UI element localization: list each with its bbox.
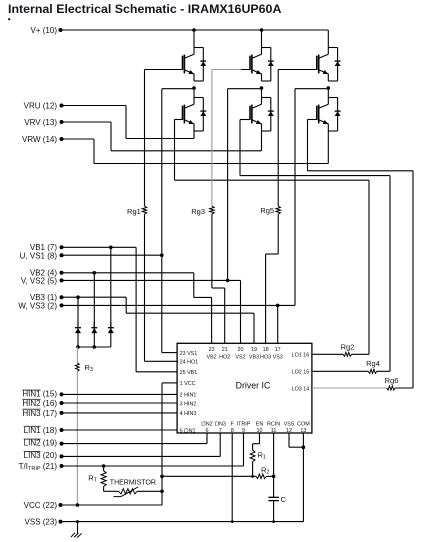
svg-text:THERMISTOR: THERMISTOR [110, 479, 156, 486]
svg-text:2 HIN1: 2 HIN1 [180, 393, 197, 399]
svg-text:HIN3 (17): HIN3 (17) [22, 409, 57, 418]
svg-text:25 VB1: 25 VB1 [180, 370, 198, 376]
svg-text:ITRIP: ITRIP [237, 422, 251, 428]
svg-text:20: 20 [238, 347, 244, 353]
svg-text:19: 19 [251, 347, 257, 353]
svg-text:Rg3: Rg3 [191, 207, 205, 216]
svg-text:7: 7 [219, 428, 222, 434]
svg-text:COM: COM [297, 422, 310, 428]
svg-text:VB2: VB2 [206, 354, 216, 360]
svg-text:V, VS2 (5): V, VS2 (5) [21, 277, 58, 286]
svg-text:EN: EN [256, 422, 264, 428]
svg-text:6: 6 [206, 428, 209, 434]
svg-text:11: 11 [271, 428, 277, 434]
svg-text:LIN2: LIN2 [201, 422, 212, 428]
svg-text:24 HO1: 24 HO1 [180, 360, 199, 366]
svg-text:RCIN: RCIN [267, 422, 280, 428]
svg-text:8: 8 [231, 428, 234, 434]
svg-text:C: C [281, 495, 287, 504]
svg-text:LIN1 (18): LIN1 (18) [24, 426, 58, 435]
svg-text:1 VCC: 1 VCC [180, 381, 196, 387]
svg-text:Rg6: Rg6 [385, 376, 399, 385]
svg-text:VSS: VSS [284, 422, 295, 428]
svg-text:Driver IC: Driver IC [236, 380, 271, 390]
svg-text:HO3: HO3 [260, 354, 271, 360]
svg-text:VB3: VB3 [249, 354, 259, 360]
svg-text:10: 10 [257, 428, 263, 434]
svg-text:Rg2: Rg2 [341, 342, 355, 351]
svg-text:22: 22 [209, 347, 215, 353]
svg-text:HIN2 (16): HIN2 (16) [22, 399, 57, 408]
svg-text:21: 21 [222, 347, 228, 353]
svg-text:VRV (13): VRV (13) [24, 118, 57, 127]
svg-text:HIN1 (15): HIN1 (15) [22, 390, 57, 399]
svg-text:LO1 16: LO1 16 [292, 353, 310, 359]
svg-text:U, VS1 (8): U, VS1 (8) [20, 252, 58, 261]
svg-text:VRW (14): VRW (14) [22, 135, 57, 144]
svg-text:W, VS3 (2): W, VS3 (2) [18, 302, 57, 311]
svg-text:LIN3: LIN3 [215, 422, 226, 428]
svg-text:VSS (23): VSS (23) [25, 518, 58, 527]
svg-text:LO3 14: LO3 14 [292, 386, 310, 392]
svg-text:VS3: VS3 [273, 354, 283, 360]
svg-text:VCC (22): VCC (22) [24, 501, 58, 510]
svg-text:Rg1: Rg1 [127, 207, 141, 216]
svg-text:VS2: VS2 [235, 354, 245, 360]
svg-text:17: 17 [275, 347, 281, 353]
svg-text:12: 12 [286, 428, 292, 434]
svg-text:Internal Electrical Schematic: Internal Electrical Schematic - IRAMX16U… [8, 2, 281, 16]
svg-text:LIN2 (19): LIN2 (19) [24, 439, 58, 448]
svg-text:Rg5: Rg5 [260, 206, 274, 215]
svg-text:5 LIN1: 5 LIN1 [180, 428, 196, 434]
svg-text:LIN3 (20): LIN3 (20) [24, 451, 58, 460]
svg-text:LO2 15: LO2 15 [292, 370, 310, 376]
svg-text:18: 18 [263, 347, 269, 353]
svg-text:4 HIN3: 4 HIN3 [180, 411, 197, 417]
svg-text:HO2: HO2 [219, 354, 230, 360]
svg-text:3 HIN2: 3 HIN2 [180, 401, 197, 407]
svg-text:13: 13 [300, 428, 306, 434]
svg-text:V+ (10): V+ (10) [31, 26, 58, 35]
svg-text:Rg4: Rg4 [366, 359, 380, 368]
svg-text:9: 9 [242, 428, 245, 434]
svg-text:VRU (12): VRU (12) [24, 101, 58, 110]
svg-text:23 VS1: 23 VS1 [180, 351, 198, 357]
